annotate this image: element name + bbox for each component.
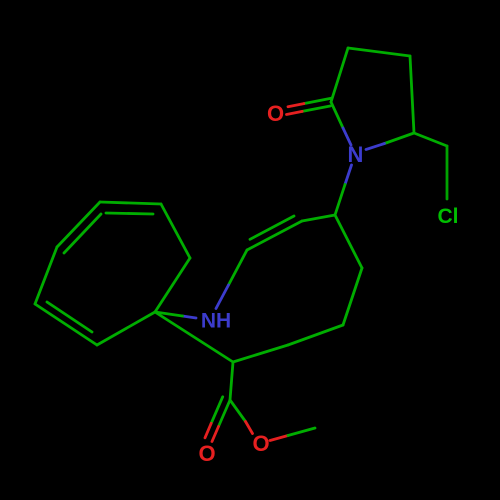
bond CH2-Cl to label [446, 146, 449, 199]
seven-ring edge P3-P4 [100, 202, 161, 204]
svg-text:O: O [198, 441, 215, 466]
seven-ring edge P7-P1 inner double line [47, 302, 92, 332]
bond M-Q [233, 345, 288, 362]
svg-text:NH: NH [201, 310, 231, 333]
bond Os-CH3 oxygen half [270, 436, 288, 441]
ester C-O single bond carbon half [230, 400, 246, 422]
seven-ring edge P1-P2 [35, 247, 57, 304]
bond C5-N1 nitrogen half [366, 144, 385, 150]
seven-ring edge P3-P4 inner double line [106, 213, 153, 214]
double bond V5=V4 main line [247, 221, 302, 250]
seven-ring edge P2-P3 inner double line [64, 214, 101, 253]
lactam ring bond C3-C4 [348, 48, 410, 56]
seven-ring edge P2-P3 [57, 202, 100, 247]
bond NH-P6 carbon half [155, 312, 183, 316]
bond Q-Cc [230, 362, 233, 400]
seven-ring edge P4-P5 [161, 204, 190, 258]
bond V2-V3 [343, 268, 362, 325]
bond N1-CH(V1) nitrogen half [345, 165, 352, 185]
lactam C2=O double bond oxygen half [287, 104, 304, 115]
bond P6-Q [155, 312, 233, 362]
double bond V5=V4 inner line [250, 216, 294, 239]
svg-text:O: O [252, 431, 269, 456]
bond C5-N1 carbon half [385, 133, 415, 144]
ester C=O double bond carbon half [211, 397, 230, 427]
lactam ring bond C2-C3 [331, 48, 348, 102]
bond V3-M [288, 325, 343, 345]
bond C2-N1 nitrogen half [343, 128, 351, 145]
svg-text:Cl: Cl [438, 205, 459, 228]
lactam ring bond C4-C5 [410, 56, 414, 133]
svg-text:O: O [267, 101, 284, 126]
bond C5-CH2Cl [414, 133, 447, 146]
bond C2-N1 carbon half [331, 102, 343, 128]
bond Os-CH3 carbon half [288, 428, 315, 436]
bond NH-P6 nitrogen half [183, 316, 197, 318]
bond V4-NH carbon half [229, 250, 248, 285]
seven-ring edge P7-P1 [35, 304, 97, 345]
bond N1-CH(V1) carbon half [335, 185, 345, 216]
svg-text:N: N [348, 142, 364, 167]
bond V1-V5 [302, 215, 335, 221]
bond V1-V2 [335, 215, 362, 268]
ester C-O single bond oxygen half [246, 422, 253, 434]
seven-ring edge P5-P6 [155, 258, 190, 312]
ester C=O double bond oxygen half [205, 423, 219, 441]
lactam C2=O double bond carbon half [302, 98, 332, 111]
bond V4-NH nitrogen half [216, 285, 229, 309]
seven-ring edge P6-P7 [97, 312, 155, 345]
